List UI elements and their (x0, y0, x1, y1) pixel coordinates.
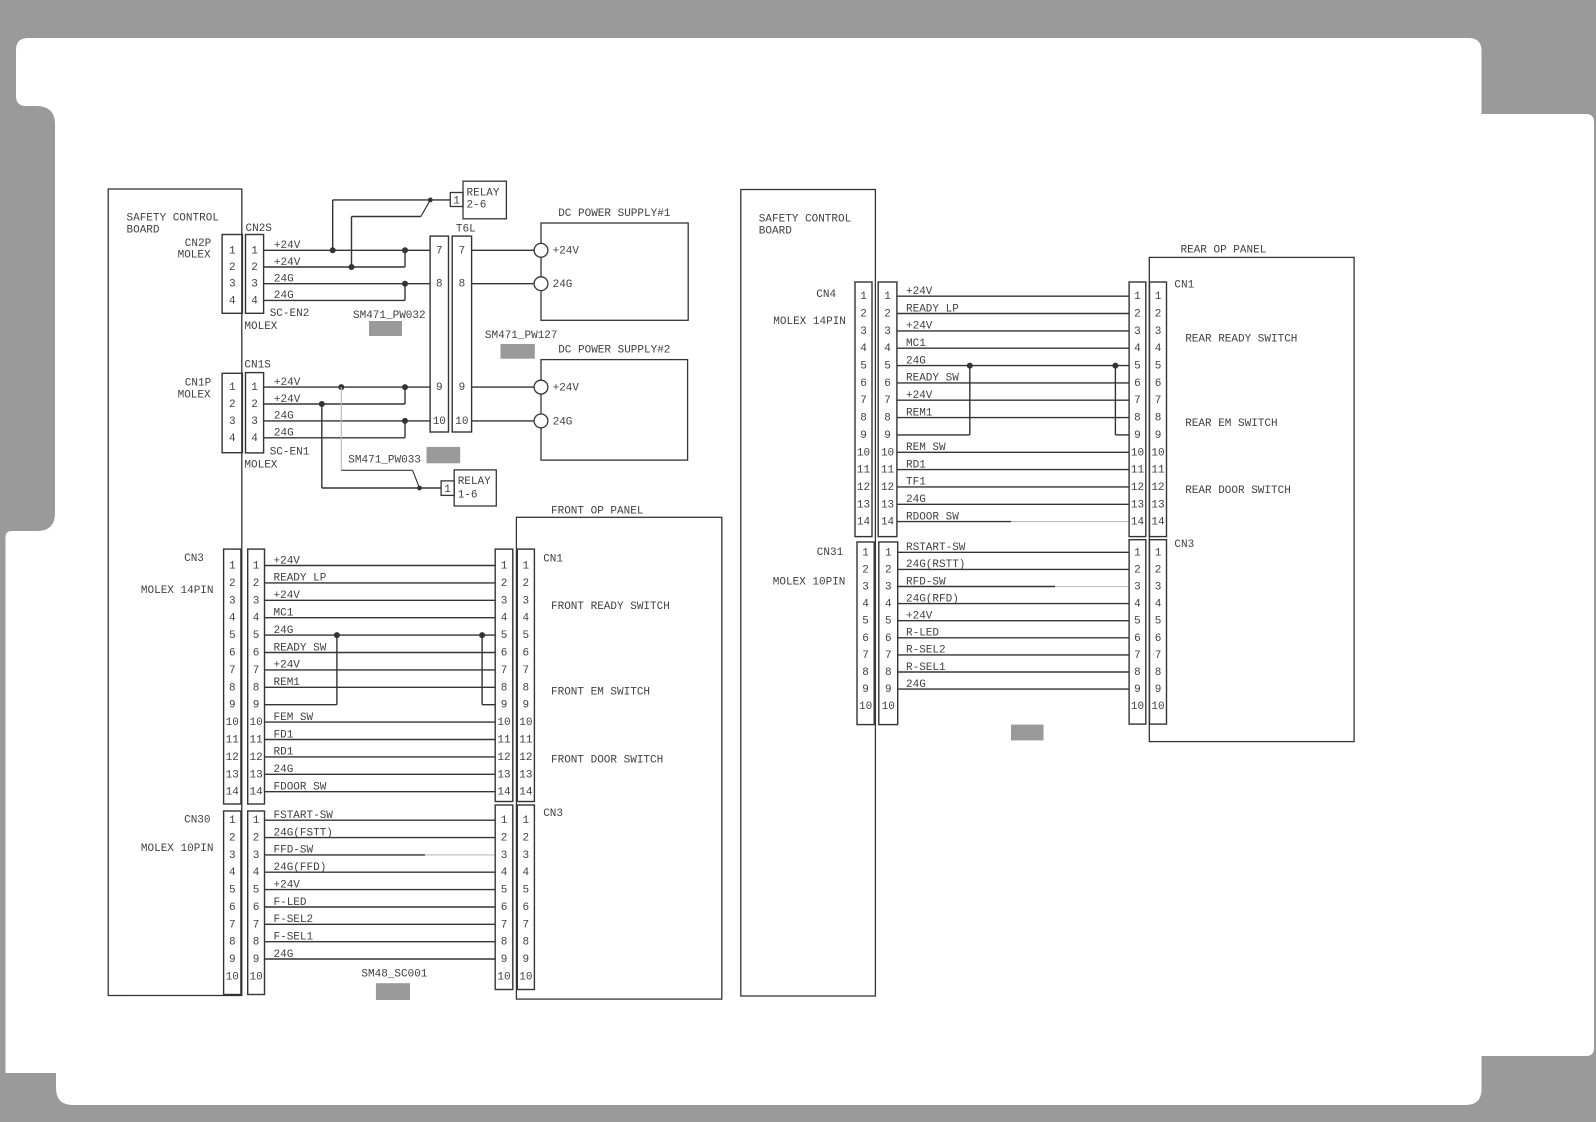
svg-text:2: 2 (523, 578, 530, 590)
svg-text:4: 4 (253, 613, 260, 625)
svg-text:10: 10 (1151, 701, 1164, 713)
svg-text:3: 3 (251, 416, 258, 428)
svg-text:6: 6 (523, 902, 530, 914)
svg-text:8: 8 (1134, 667, 1141, 679)
svg-text:7: 7 (459, 245, 466, 257)
svg-text:13: 13 (881, 499, 894, 511)
svg-text:6: 6 (1155, 633, 1162, 645)
svg-text:2: 2 (253, 578, 260, 590)
svg-text:3: 3 (860, 326, 867, 338)
svg-text:MOLEX: MOLEX (244, 459, 277, 471)
svg-text:CN2P: CN2P (185, 238, 212, 250)
svg-text:1: 1 (453, 195, 460, 207)
svg-text:11: 11 (881, 465, 895, 477)
svg-text:6: 6 (1134, 378, 1141, 390)
svg-text:3: 3 (1155, 582, 1162, 594)
svg-text:MOLEX 14PIN: MOLEX 14PIN (141, 585, 214, 597)
svg-text:1: 1 (885, 547, 892, 559)
svg-text:2: 2 (1155, 309, 1162, 321)
svg-text:10: 10 (882, 701, 895, 713)
svg-text:MOLEX: MOLEX (244, 321, 277, 333)
svg-text:CN1: CN1 (543, 553, 563, 565)
svg-text:8: 8 (229, 937, 236, 949)
svg-text:11: 11 (857, 465, 871, 477)
svg-text:7: 7 (1155, 650, 1162, 662)
svg-text:SM471_PW032: SM471_PW032 (353, 310, 426, 322)
svg-text:3: 3 (501, 595, 508, 607)
svg-text:10: 10 (433, 416, 446, 428)
svg-text:5: 5 (253, 885, 260, 897)
svg-text:9: 9 (253, 954, 260, 966)
svg-text:2: 2 (501, 578, 508, 590)
svg-text:14: 14 (857, 517, 871, 529)
svg-text:1-6: 1-6 (458, 489, 478, 501)
svg-text:1: 1 (1134, 291, 1141, 303)
svg-text:8: 8 (860, 413, 867, 425)
svg-text:3: 3 (229, 850, 236, 862)
svg-text:BOARD: BOARD (759, 225, 792, 237)
svg-text:10: 10 (1151, 447, 1164, 459)
svg-text:8: 8 (1155, 413, 1162, 425)
svg-text:9: 9 (229, 954, 236, 966)
svg-text:7: 7 (501, 919, 508, 931)
svg-text:8: 8 (862, 667, 869, 679)
svg-text:6: 6 (523, 648, 530, 660)
svg-text:7: 7 (501, 665, 508, 677)
svg-text:8: 8 (436, 279, 443, 291)
svg-text:10: 10 (455, 416, 468, 428)
svg-text:9: 9 (523, 954, 530, 966)
svg-text:9: 9 (229, 700, 236, 712)
svg-text:RELAY: RELAY (467, 188, 500, 200)
svg-text:6: 6 (860, 378, 867, 390)
svg-text:5: 5 (229, 885, 236, 897)
svg-text:11: 11 (1151, 465, 1165, 477)
svg-text:12: 12 (857, 482, 870, 494)
svg-text:8: 8 (523, 682, 530, 694)
svg-text:RELAY: RELAY (458, 476, 491, 488)
svg-text:7: 7 (523, 919, 530, 931)
svg-text:6: 6 (501, 648, 508, 660)
svg-text:SM471_PW033: SM471_PW033 (348, 455, 421, 467)
svg-text:REAR DOOR SWITCH: REAR DOOR SWITCH (1185, 485, 1291, 497)
svg-text:5: 5 (884, 361, 891, 373)
svg-text:8: 8 (253, 937, 260, 949)
svg-text:7: 7 (885, 650, 892, 662)
svg-text:FRONT DOOR SWITCH: FRONT DOOR SWITCH (551, 755, 663, 767)
svg-text:1: 1 (860, 291, 867, 303)
svg-text:5: 5 (229, 630, 236, 642)
svg-text:1: 1 (229, 245, 236, 257)
svg-text:3: 3 (229, 595, 236, 607)
svg-text:CN1P: CN1P (185, 378, 212, 390)
svg-text:DC POWER SUPPLY#1: DC POWER SUPPLY#1 (558, 208, 671, 220)
svg-text:10: 10 (226, 971, 239, 983)
svg-text:13: 13 (857, 499, 870, 511)
svg-text:2: 2 (523, 833, 530, 845)
svg-text:SM48_SC001: SM48_SC001 (361, 968, 427, 980)
svg-text:CN3: CN3 (1174, 539, 1194, 551)
svg-text:8: 8 (884, 413, 891, 425)
svg-text:SC-EN2: SC-EN2 (270, 308, 310, 320)
svg-text:4: 4 (251, 295, 258, 307)
svg-text:+24V: +24V (553, 383, 580, 395)
svg-text:10: 10 (519, 717, 532, 729)
svg-text:10: 10 (497, 971, 510, 983)
svg-text:6: 6 (253, 648, 260, 660)
svg-text:4: 4 (1134, 599, 1141, 611)
svg-text:SAFETY CONTROL: SAFETY CONTROL (127, 213, 219, 225)
svg-text:4: 4 (1155, 599, 1162, 611)
svg-text:1: 1 (251, 245, 258, 257)
svg-text:7: 7 (523, 665, 530, 677)
svg-text:CN4: CN4 (816, 289, 836, 301)
svg-text:SM471_PW127: SM471_PW127 (485, 330, 558, 342)
svg-text:5: 5 (253, 630, 260, 642)
svg-text:12: 12 (1131, 482, 1144, 494)
svg-text:9: 9 (1155, 430, 1162, 442)
svg-text:4: 4 (523, 613, 530, 625)
svg-text:14: 14 (1151, 517, 1165, 529)
svg-text:24G: 24G (553, 279, 573, 291)
svg-text:4: 4 (523, 867, 530, 879)
svg-text:4: 4 (860, 343, 867, 355)
svg-text:DC POWER SUPPLY#2: DC POWER SUPPLY#2 (558, 345, 670, 357)
svg-text:14: 14 (226, 787, 240, 799)
svg-text:10: 10 (1131, 701, 1144, 713)
svg-text:13: 13 (249, 769, 262, 781)
svg-text:7: 7 (229, 665, 236, 677)
svg-text:8: 8 (501, 937, 508, 949)
svg-text:2: 2 (229, 578, 236, 590)
svg-text:4: 4 (251, 433, 258, 445)
svg-text:1: 1 (229, 382, 236, 394)
svg-text:10: 10 (519, 971, 532, 983)
svg-text:6: 6 (253, 902, 260, 914)
svg-text:9: 9 (862, 684, 869, 696)
svg-text:8: 8 (885, 667, 892, 679)
svg-text:3: 3 (501, 850, 508, 862)
svg-text:6: 6 (885, 633, 892, 645)
svg-text:10: 10 (881, 447, 894, 459)
svg-text:9: 9 (523, 700, 530, 712)
svg-text:13: 13 (1131, 499, 1144, 511)
svg-text:FRONT READY SWITCH: FRONT READY SWITCH (551, 601, 670, 613)
svg-text:14: 14 (497, 787, 511, 799)
svg-text:12: 12 (881, 482, 894, 494)
svg-text:13: 13 (519, 769, 532, 781)
svg-text:5: 5 (1155, 616, 1162, 628)
svg-text:3: 3 (862, 582, 869, 594)
svg-text:CN3: CN3 (543, 808, 563, 820)
svg-text:3: 3 (523, 595, 530, 607)
svg-text:2: 2 (884, 309, 891, 321)
svg-text:9: 9 (884, 430, 891, 442)
svg-text:3: 3 (253, 850, 260, 862)
svg-text:7: 7 (436, 245, 443, 257)
svg-text:2: 2 (1134, 564, 1141, 576)
svg-text:4: 4 (1155, 343, 1162, 355)
svg-text:1: 1 (501, 815, 508, 827)
svg-text:5: 5 (862, 616, 869, 628)
svg-text:8: 8 (459, 279, 466, 291)
svg-text:MOLEX 14PIN: MOLEX 14PIN (773, 316, 846, 328)
svg-text:4: 4 (229, 295, 236, 307)
svg-text:4: 4 (884, 343, 891, 355)
svg-text:3: 3 (251, 279, 258, 291)
svg-text:5: 5 (1155, 361, 1162, 373)
svg-text:8: 8 (501, 682, 508, 694)
svg-text:14: 14 (1131, 517, 1145, 529)
svg-text:24G: 24G (553, 416, 573, 428)
svg-text:5: 5 (860, 361, 867, 373)
svg-text:3: 3 (885, 582, 892, 594)
svg-text:2: 2 (885, 564, 892, 576)
svg-text:9: 9 (501, 954, 508, 966)
svg-text:1: 1 (251, 382, 258, 394)
svg-text:10: 10 (249, 971, 262, 983)
svg-text:7: 7 (862, 650, 869, 662)
svg-text:2: 2 (229, 833, 236, 845)
svg-text:CN31: CN31 (817, 547, 844, 559)
svg-text:9: 9 (1134, 684, 1141, 696)
svg-text:11: 11 (497, 735, 511, 747)
svg-text:1: 1 (1134, 547, 1141, 559)
svg-text:5: 5 (885, 616, 892, 628)
svg-text:7: 7 (860, 395, 867, 407)
svg-text:4: 4 (1134, 343, 1141, 355)
svg-text:1: 1 (229, 815, 236, 827)
svg-text:REAR OP PANEL: REAR OP PANEL (1181, 245, 1267, 257)
svg-text:4: 4 (862, 599, 869, 611)
svg-text:7: 7 (1134, 395, 1141, 407)
svg-text:10: 10 (497, 717, 510, 729)
svg-text:4: 4 (885, 599, 892, 611)
svg-text:9: 9 (1134, 430, 1141, 442)
svg-text:CN2S: CN2S (246, 223, 273, 235)
svg-text:FRONT OP PANEL: FRONT OP PANEL (551, 506, 643, 518)
svg-text:1: 1 (523, 561, 530, 573)
svg-text:6: 6 (862, 633, 869, 645)
svg-text:10: 10 (857, 447, 870, 459)
svg-text:3: 3 (1155, 326, 1162, 338)
svg-text:9: 9 (885, 684, 892, 696)
svg-text:2: 2 (1155, 564, 1162, 576)
svg-text:1: 1 (1155, 291, 1162, 303)
svg-text:CN3: CN3 (184, 553, 204, 565)
svg-text:7: 7 (1134, 650, 1141, 662)
svg-text:3: 3 (523, 850, 530, 862)
svg-text:1: 1 (501, 561, 508, 573)
svg-text:BOARD: BOARD (127, 225, 160, 237)
svg-text:CN30: CN30 (184, 815, 210, 827)
svg-text:4: 4 (501, 613, 508, 625)
svg-text:4: 4 (229, 867, 236, 879)
svg-text:CN1: CN1 (1174, 280, 1194, 292)
svg-text:5: 5 (501, 630, 508, 642)
svg-text:10: 10 (1131, 447, 1144, 459)
svg-text:1: 1 (229, 561, 236, 573)
svg-text:5: 5 (1134, 361, 1141, 373)
svg-text:3: 3 (884, 326, 891, 338)
svg-text:8: 8 (1155, 667, 1162, 679)
svg-text:13: 13 (1151, 499, 1164, 511)
svg-text:2: 2 (251, 262, 258, 274)
svg-text:8: 8 (229, 682, 236, 694)
svg-text:1: 1 (1155, 547, 1162, 559)
svg-text:12: 12 (226, 752, 239, 764)
svg-text:5: 5 (523, 885, 530, 897)
svg-text:4: 4 (229, 433, 236, 445)
svg-text:5: 5 (523, 630, 530, 642)
svg-text:3: 3 (253, 595, 260, 607)
svg-text:10: 10 (226, 717, 239, 729)
svg-text:9: 9 (436, 382, 443, 394)
svg-text:11: 11 (249, 735, 263, 747)
svg-text:7: 7 (253, 919, 260, 931)
svg-text:5: 5 (501, 885, 508, 897)
svg-text:3: 3 (229, 279, 236, 291)
svg-text:7: 7 (253, 665, 260, 677)
svg-text:6: 6 (884, 378, 891, 390)
svg-text:14: 14 (519, 787, 533, 799)
svg-text:7: 7 (884, 395, 891, 407)
svg-text:11: 11 (519, 735, 533, 747)
svg-text:MOLEX 10PIN: MOLEX 10PIN (773, 576, 846, 588)
svg-text:8: 8 (523, 937, 530, 949)
svg-text:2-6: 2-6 (467, 200, 487, 212)
svg-text:12: 12 (519, 752, 532, 764)
svg-text:MOLEX 10PIN: MOLEX 10PIN (141, 843, 214, 855)
svg-text:3: 3 (1134, 326, 1141, 338)
svg-text:1: 1 (444, 484, 451, 496)
svg-text:CN1S: CN1S (244, 359, 271, 371)
svg-text:T6L: T6L (456, 224, 476, 236)
svg-text:2: 2 (251, 399, 258, 411)
svg-text:5: 5 (1134, 616, 1141, 628)
svg-text:4: 4 (229, 613, 236, 625)
svg-text:7: 7 (1155, 395, 1162, 407)
svg-text:1: 1 (253, 815, 260, 827)
svg-text:+24V: +24V (553, 246, 580, 258)
svg-text:14: 14 (881, 517, 895, 529)
svg-text:3: 3 (1134, 582, 1141, 594)
svg-text:12: 12 (249, 752, 262, 764)
svg-text:7: 7 (229, 919, 236, 931)
svg-text:1: 1 (862, 547, 869, 559)
svg-text:12: 12 (1151, 482, 1164, 494)
svg-text:REAR READY SWITCH: REAR READY SWITCH (1185, 334, 1297, 346)
svg-text:FRONT EM SWITCH: FRONT EM SWITCH (551, 687, 650, 699)
svg-text:6: 6 (501, 902, 508, 914)
svg-text:10: 10 (249, 717, 262, 729)
svg-text:4: 4 (501, 867, 508, 879)
svg-text:2: 2 (501, 833, 508, 845)
svg-text:9: 9 (459, 382, 466, 394)
svg-text:SAFETY CONTROL: SAFETY CONTROL (759, 214, 851, 226)
svg-text:11: 11 (226, 735, 240, 747)
svg-text:6: 6 (229, 648, 236, 660)
svg-text:10: 10 (859, 701, 872, 713)
svg-text:8: 8 (253, 682, 260, 694)
svg-text:13: 13 (226, 769, 239, 781)
svg-text:8: 8 (1134, 413, 1141, 425)
svg-text:REAR EM SWITCH: REAR EM SWITCH (1185, 418, 1277, 430)
svg-text:12: 12 (497, 752, 510, 764)
svg-text:2: 2 (253, 833, 260, 845)
svg-text:1: 1 (253, 561, 260, 573)
svg-text:13: 13 (497, 769, 510, 781)
svg-text:2: 2 (862, 564, 869, 576)
svg-text:2: 2 (229, 399, 236, 411)
svg-text:4: 4 (253, 867, 260, 879)
svg-text:9: 9 (1155, 684, 1162, 696)
svg-text:1: 1 (523, 815, 530, 827)
svg-text:SC-EN1: SC-EN1 (270, 446, 310, 458)
svg-text:14: 14 (249, 787, 263, 799)
svg-text:2: 2 (229, 262, 236, 274)
svg-text:9: 9 (253, 700, 260, 712)
svg-text:3: 3 (229, 416, 236, 428)
svg-text:6: 6 (1134, 633, 1141, 645)
svg-text:2: 2 (860, 309, 867, 321)
svg-text:2: 2 (1134, 309, 1141, 321)
svg-text:1: 1 (884, 291, 891, 303)
svg-text:MOLEX: MOLEX (178, 249, 211, 261)
svg-text:MOLEX: MOLEX (178, 390, 211, 402)
svg-text:6: 6 (1155, 378, 1162, 390)
svg-text:9: 9 (501, 700, 508, 712)
svg-text:9: 9 (860, 430, 867, 442)
svg-text:11: 11 (1131, 465, 1145, 477)
svg-text:6: 6 (229, 902, 236, 914)
